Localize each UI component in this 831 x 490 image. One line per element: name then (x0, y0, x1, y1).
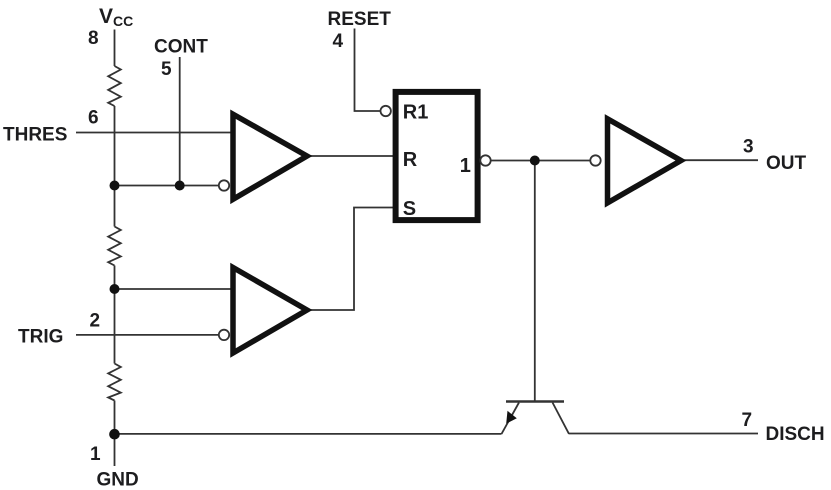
wire: rail between upper and middle resistor (114, 106, 116, 227)
resistor (middle divider) (108, 227, 121, 266)
inversion bubble: R1 reset input (381, 106, 391, 116)
svg-text:RESET: RESET (328, 9, 392, 30)
wire: buffer output to OUT pin (681, 159, 758, 161)
svg-text:7: 7 (742, 410, 753, 431)
svg-text:3: 3 (743, 137, 754, 158)
inversion bubble: buffer input (590, 155, 600, 165)
wire: rail between middle and lower resistor (114, 266, 116, 364)
svg-text:S: S (403, 198, 416, 220)
wire: rail to ground stub (114, 401, 116, 467)
svg-text:R1: R1 (403, 101, 429, 123)
wire: VCC rail top segment (114, 30, 116, 67)
svg-text:5: 5 (161, 59, 172, 80)
wire: THRES lead to comparator + input (76, 132, 233, 134)
wire: CONT vertical lead (179, 57, 181, 186)
svg-text:6: 6 (88, 108, 99, 129)
wire: collector to DISCH pin (569, 433, 758, 435)
inversion bubble: threshold comparator - input (219, 180, 229, 190)
svg-text:1: 1 (90, 444, 101, 465)
junction: CONT on divider tap line (175, 181, 185, 191)
wire: output node down to transistor base (534, 161, 536, 402)
wire: RESET vertical lead (355, 29, 381, 112)
svg-text:R: R (403, 149, 418, 171)
wire: threshold comparator output to R input (310, 155, 395, 157)
resistor (lower divider) (108, 364, 121, 401)
op-amp threshold comparator (233, 114, 307, 199)
svg-text:GND: GND (97, 470, 139, 490)
transistor Q1 (discharge) (502, 402, 570, 434)
junction: divider node at trigger + input (110, 284, 120, 294)
wire: flip-flop output to buffer input (491, 160, 591, 162)
wire: divider node to threshold comparator - input (115, 185, 219, 187)
junction: output node to discharge base (530, 156, 540, 166)
svg-text:8: 8 (88, 28, 99, 49)
wire: TRIG lead to comparator - input (76, 334, 219, 336)
inversion bubble: trigger comparator - input (219, 330, 229, 340)
svg-text:THRES: THRES (3, 125, 67, 146)
wire: trigger comparator output to S input (311, 208, 395, 311)
svg-text:2: 2 (90, 311, 101, 332)
op-amp trigger comparator (233, 268, 307, 354)
svg-text:VCC: VCC (99, 5, 133, 29)
junction: divider node at threshold - input (110, 181, 120, 191)
wire: GND horizontal run (115, 433, 502, 435)
output buffer amplifier (608, 119, 682, 203)
svg-text:TRIG: TRIG (18, 327, 63, 348)
svg-text:CONT: CONT (154, 37, 208, 58)
svg-text:OUT: OUT (766, 153, 807, 174)
junction: GND node (109, 429, 120, 440)
svg-text:DISCH: DISCH (766, 424, 825, 445)
svg-text:1: 1 (460, 155, 471, 177)
svg-text:4: 4 (333, 31, 344, 52)
flip-flop (bistable latch) (396, 92, 478, 220)
resistor (upper divider) (108, 66, 121, 106)
wire: divider node to trigger comparator + input (115, 288, 234, 290)
inversion bubble: flip-flop output (480, 155, 490, 165)
